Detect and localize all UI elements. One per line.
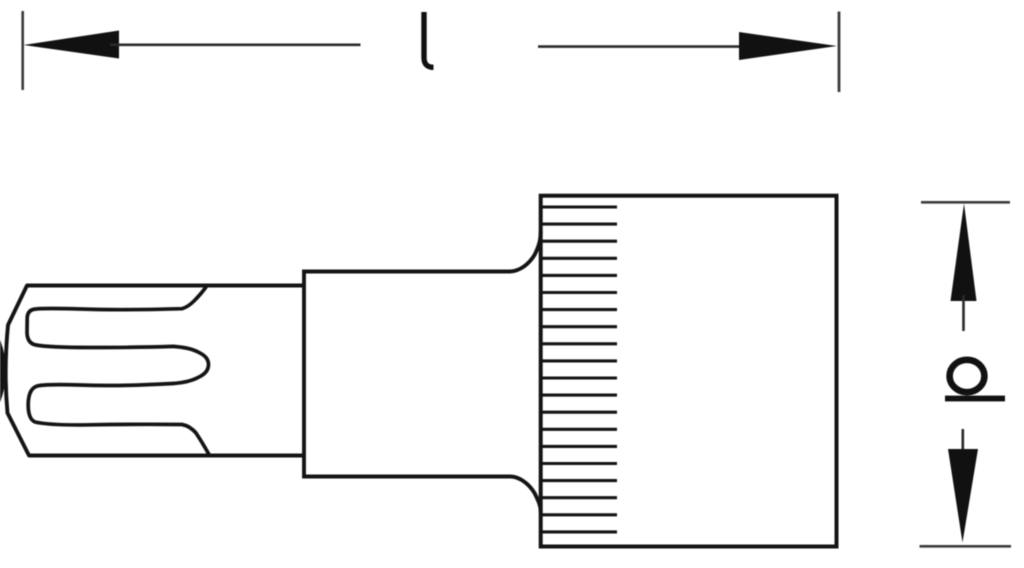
dimension l: right extension tick — [838, 12, 841, 93]
shank-to-socket bottom flare — [511, 477, 541, 513]
dimension l: left arrowhead — [24, 31, 120, 59]
dimension l: right line segment — [538, 45, 745, 48]
dimension l: left extension tick — [21, 11, 24, 90]
dimension d: label "d" (rotated 90deg cw) bowl — [950, 360, 985, 392]
dimension l: left line segment — [110, 43, 361, 46]
dimension d: up arrowhead — [951, 204, 977, 302]
dimension d: lower line segment — [961, 429, 964, 452]
torx groove path (snaking flute silhouette) — [27, 287, 209, 455]
shank-to-socket top flare — [511, 231, 541, 272]
bit tip far-left lobe arc — [0, 337, 6, 405]
knurl lines group — [541, 207, 617, 532]
dimension d: bottom extension tick — [920, 545, 1012, 548]
dimension d: upper line segment — [962, 295, 965, 331]
socket body rectangle — [541, 196, 837, 547]
shank outline — [304, 272, 511, 477]
dimension l: label "l" — [424, 12, 434, 67]
dimension d: top extension tick — [921, 201, 1010, 204]
bit tip outline (torx side view) — [6, 286, 304, 456]
dimension d: label "d" stem bar — [945, 396, 1005, 402]
dimension l: right arrowhead — [739, 32, 837, 60]
dimension d: down arrowhead — [948, 449, 978, 543]
